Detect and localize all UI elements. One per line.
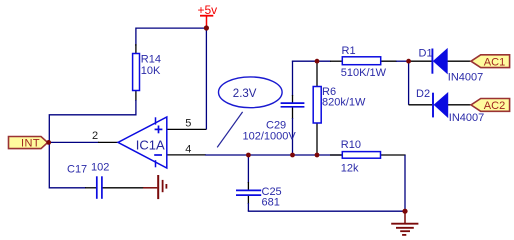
- svg-text:R14: R14: [141, 54, 161, 66]
- wire feedback from R14 bottom to INT node: [49, 91, 136, 143]
- resistor R14: [133, 54, 161, 91]
- svg-text:D2: D2: [416, 88, 430, 100]
- junction dot diode node: [406, 59, 411, 64]
- capacitor C25: [236, 186, 282, 209]
- junction dot R6 bottom: [315, 153, 320, 158]
- svg-text:R10: R10: [341, 139, 361, 151]
- junction dot at INT node: [46, 140, 51, 145]
- callout pointer line: [217, 112, 242, 147]
- callout ellipse 2.3V: [219, 77, 283, 108]
- junction dot at +5v node: [204, 25, 209, 30]
- wire node INT down to C17: [49, 142, 96, 188]
- wire C17 right plate to ground: [102, 187, 144, 189]
- wire C25 branch: [247, 155, 249, 211]
- svg-text:4: 4: [185, 143, 191, 155]
- svg-text:5: 5: [185, 118, 191, 130]
- wire R6 top pin: [316, 61, 318, 86]
- diode D1: [419, 47, 484, 83]
- svg-text:820k/1W: 820k/1W: [322, 97, 366, 109]
- diode D2: [416, 88, 484, 124]
- svg-text:IC1A: IC1A: [136, 137, 165, 152]
- wire R6 bottom pin: [316, 123, 318, 155]
- wire node INT to op-amp pin 2: [49, 141, 119, 143]
- svg-text:10K: 10K: [141, 65, 161, 77]
- svg-text:2.3V: 2.3V: [233, 88, 257, 100]
- svg-text:D1: D1: [419, 47, 433, 59]
- junction dot C29 branch: [290, 153, 295, 158]
- wire junction down to D2 row: [409, 61, 472, 105]
- svg-text:102: 102: [91, 161, 109, 173]
- resistor R6: [313, 86, 366, 123]
- wire R10 right to bottom ground: [248, 155, 406, 211]
- wire op-amp pin 4 bus to R10: [167, 154, 344, 156]
- svg-text:681: 681: [262, 197, 280, 209]
- svg-text:R1: R1: [342, 45, 356, 57]
- capacitor C29: [243, 103, 305, 142]
- power port +5v: [198, 3, 218, 26]
- svg-text:INT: INT: [21, 138, 40, 150]
- wire op-amp pin 5 up to +5v junction: [167, 28, 207, 130]
- resistor R1: [341, 45, 387, 79]
- resistor R10: [341, 139, 381, 175]
- junction dot R6 top: [315, 59, 320, 64]
- svg-text:2: 2: [92, 130, 98, 142]
- svg-text:102/1000V: 102/1000V: [243, 130, 297, 142]
- wire diode D1 row: [409, 60, 472, 62]
- wire top rail C29 corner to R1 and diode junction: [292, 60, 409, 62]
- junction dot C25 branch: [246, 153, 251, 158]
- ground (op-amp, right-pointing): [143, 175, 166, 199]
- wire from +5v junction to R14 top: [136, 28, 207, 53]
- capacitor C17: [67, 161, 109, 199]
- junction dot bottom ground: [402, 209, 407, 214]
- wire R10 left pin: [330, 154, 343, 156]
- svg-text:AC1: AC1: [484, 56, 505, 68]
- svg-text:C17: C17: [67, 163, 87, 175]
- svg-text:510K/1W: 510K/1W: [341, 67, 387, 79]
- port AC1: [471, 55, 510, 69]
- svg-text:IN4007: IN4007: [449, 112, 484, 124]
- port AC2: [471, 99, 510, 113]
- op-amp IC1A: [118, 117, 167, 168]
- svg-text:AC2: AC2: [484, 100, 505, 112]
- svg-text:12k: 12k: [341, 162, 359, 174]
- ground (bottom): [391, 213, 418, 235]
- svg-text:IN4007: IN4007: [448, 72, 483, 84]
- wire C29 branch vertical: [292, 61, 294, 155]
- port INT: [9, 137, 48, 150]
